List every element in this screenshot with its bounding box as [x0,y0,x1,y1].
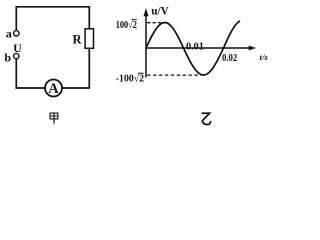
svg-text:A: A [48,81,59,97]
svg-text:0.02: 0.02 [222,53,237,64]
svg-text:U: U [13,41,22,55]
svg-text:R: R [72,33,82,47]
svg-text:-100√2: -100√2 [116,73,144,85]
svg-text:100√2: 100√2 [116,19,137,31]
svg-text:a: a [6,26,12,40]
svg-text:u/V: u/V [151,6,168,18]
svg-text:0.01: 0.01 [186,41,204,52]
svg-text:b: b [4,51,11,65]
svg-text:t/s: t/s [260,52,269,62]
